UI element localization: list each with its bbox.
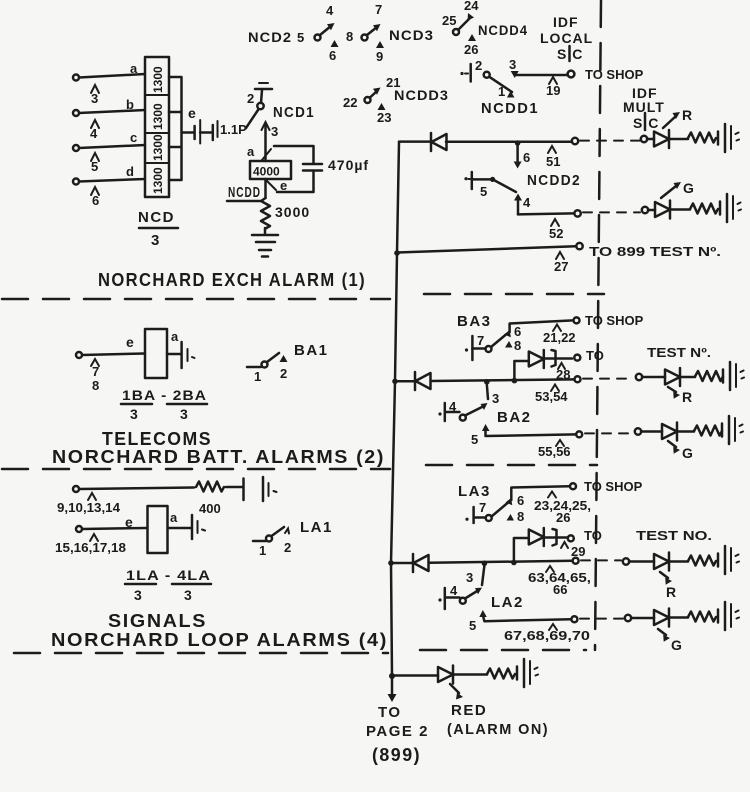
relay NCD coil block — [145, 57, 169, 197]
svg-text:TO SHOP: TO SHOP — [585, 313, 644, 328]
pin arrow 63-66 — [546, 566, 554, 572]
svg-text:IDF: IDF — [553, 14, 579, 30]
svg-text:2: 2 — [247, 91, 254, 106]
label 1BA - 2BA fraction — [121, 387, 207, 422]
wire — [669, 560, 688, 563]
svg-text:a: a — [130, 61, 138, 76]
resistor BA G — [694, 426, 722, 436]
svg-text:a: a — [171, 329, 179, 344]
wire c — [79, 145, 145, 148]
diode red alarm — [438, 666, 453, 684]
svg-text:e: e — [125, 514, 134, 530]
contact BA2 front bar — [438, 403, 459, 421]
pin arrow 7 8 — [91, 359, 99, 366]
wire coil to resistor — [264, 179, 267, 198]
svg-text:a: a — [247, 144, 255, 159]
relay NCD1 coil 4000 — [250, 149, 291, 179]
wire row 67-70 — [483, 615, 571, 621]
svg-text:RED: RED — [451, 702, 487, 719]
contact NCDD1 front bar — [460, 64, 470, 82]
terminal 29 — [568, 535, 574, 541]
pin arrow 5 — [482, 424, 490, 431]
wire — [631, 617, 654, 620]
svg-text:G: G — [683, 180, 695, 196]
wire to resistor 400 — [79, 488, 194, 490]
diode G lamp LA — [654, 609, 669, 627]
armature wire 3 with up arrow — [262, 122, 270, 161]
wire — [642, 376, 665, 379]
terminal row 53,54 — [575, 376, 581, 382]
svg-text:53,54: 53,54 — [535, 389, 568, 404]
dashed tie line row 63-66 — [581, 559, 621, 561]
battery row 52 — [720, 194, 741, 222]
terminal row 53,54 right — [636, 374, 642, 380]
svg-text:NORCHARD BATT. ALARMS (2): NORCHARD BATT. ALARMS (2) — [52, 447, 385, 467]
dashed tie line row 52 — [583, 211, 640, 213]
wire pivot drop 3 — [487, 384, 488, 399]
svg-text:TO SHOP: TO SHOP — [585, 67, 644, 82]
svg-text:1300: 1300 — [151, 134, 165, 161]
svg-text:52: 52 — [549, 226, 563, 241]
svg-text:3: 3 — [151, 232, 161, 249]
terminal row 51 right — [641, 136, 647, 142]
terminal d — [73, 179, 79, 185]
wire pivot drop 3 — [482, 566, 484, 586]
diode G lamp row 52 — [655, 201, 670, 219]
junction node TO 899 line — [394, 250, 400, 256]
svg-text:NCDD1: NCDD1 — [481, 100, 539, 117]
lamp label G with arrow — [668, 441, 694, 461]
battery symbol on a — [192, 515, 205, 539]
wire — [545, 357, 572, 360]
ground above NCD1 contact — [255, 83, 272, 103]
resistor 3000 (vertical zigzag) — [261, 198, 310, 229]
pin arrow 15,16,17,18 — [90, 534, 98, 541]
dashed section divider 1 right — [424, 293, 604, 296]
pin arrow 23,24,25 — [548, 492, 556, 498]
svg-text:LA2: LA2 — [491, 594, 524, 611]
svg-text:TO 899 TEST Nº.: TO 899 TEST Nº. — [589, 244, 721, 259]
svg-text:9: 9 — [376, 49, 383, 64]
label IDF LOCAL S|C — [540, 14, 593, 62]
svg-text:NORCHARD LOOP ALARMS (4): NORCHARD LOOP ALARMS (4) — [51, 630, 388, 650]
pin arrow 19 — [549, 77, 557, 84]
svg-text:1BA - 2BA: 1BA - 2BA — [122, 387, 207, 403]
resistor row 51 — [688, 133, 716, 143]
terminal 7/8 — [76, 352, 82, 358]
svg-text:5: 5 — [91, 159, 98, 174]
pin arrow 23 — [378, 103, 386, 110]
battery symbol on a — [182, 342, 195, 368]
svg-text:NCD1: NCD1 — [273, 104, 315, 121]
contact LA3 blade arrowhead — [506, 498, 513, 505]
terminal row 55,56 right — [635, 428, 641, 434]
svg-text:3: 3 — [184, 587, 193, 603]
wire — [641, 430, 662, 433]
ground below 3000 — [252, 235, 278, 257]
contact LA3 blade — [492, 503, 508, 517]
svg-text:3: 3 — [130, 406, 139, 422]
wire — [677, 430, 694, 433]
wire bar to pivot — [472, 178, 493, 181]
svg-text:67,68,69,70: 67,68,69,70 — [504, 628, 590, 643]
wire a — [79, 74, 145, 78]
capacitor C 470uf — [303, 164, 322, 171]
svg-text:G: G — [671, 637, 683, 653]
svg-text:1300: 1300 — [151, 167, 165, 194]
lamp label G with arrow — [661, 180, 695, 198]
contact NCDD4 pivot — [453, 29, 459, 35]
label 1LA - 4LA fraction — [125, 567, 211, 603]
resistor LA R — [688, 556, 716, 566]
contact NCD1 pivot — [257, 103, 263, 109]
battery red alarm — [517, 659, 538, 687]
contact NCDD2 front bar — [464, 172, 471, 189]
svg-text:4: 4 — [90, 126, 98, 141]
wire to relay 1BA-2BA — [82, 354, 145, 356]
pin arrow 6 — [331, 40, 339, 47]
resistor red alarm — [487, 669, 515, 679]
svg-text:(899): (899) — [372, 745, 421, 765]
svg-text:BA2: BA2 — [497, 409, 532, 426]
svg-text:21,22: 21,22 — [543, 330, 576, 345]
terminal BA3 to shop — [574, 317, 580, 323]
battery LA G — [718, 602, 739, 630]
contact BA3 front bar — [465, 336, 486, 360]
contact LA2 blade arrowhead — [475, 588, 482, 595]
pin arrow 51 — [548, 146, 556, 153]
dashed section divider 1 left — [2, 298, 390, 301]
wire — [226, 486, 242, 489]
svg-text:26: 26 — [556, 510, 570, 525]
contact NCDD2 blade — [493, 179, 516, 192]
svg-text:5: 5 — [480, 184, 487, 199]
wire d — [79, 179, 145, 182]
wire red alarm row — [392, 674, 438, 677]
svg-text:23: 23 — [377, 110, 391, 125]
contact NCDD2 pivot — [490, 177, 495, 182]
svg-text:29: 29 — [571, 544, 585, 559]
wire alarm row 51 — [399, 140, 572, 143]
contact NCD3 pivot — [362, 35, 368, 41]
contact NCDD3 pivot — [365, 97, 371, 103]
svg-text:3: 3 — [134, 587, 143, 603]
terminal row 52 left — [574, 210, 580, 216]
contact BA2 blade — [465, 407, 483, 416]
contact BA1 — [247, 353, 288, 384]
dashed section divider 3 right — [420, 649, 586, 652]
wire BA main row 53,54 — [395, 379, 574, 381]
svg-text:TEST NO.: TEST NO. — [636, 528, 712, 543]
terminal a — [73, 75, 79, 81]
diode on BA main row — [415, 372, 431, 390]
terminal c — [73, 145, 79, 151]
wire — [545, 536, 567, 539]
dashed tie line row 51 — [580, 140, 640, 142]
pin arrow 8 — [507, 514, 515, 521]
wire — [200, 131, 213, 134]
terminal 28 — [574, 355, 580, 361]
terminal row 52 right — [642, 207, 648, 213]
terminal row 67-70 — [571, 616, 577, 622]
svg-text:3: 3 — [271, 124, 278, 139]
half battery mark on 29 branch — [553, 529, 557, 546]
contact LA2 blade — [465, 591, 478, 599]
contact NCD3 blade with arrowhead — [367, 24, 381, 35]
svg-text:8: 8 — [517, 509, 524, 524]
svg-text:4: 4 — [326, 3, 334, 18]
svg-text:3: 3 — [466, 570, 473, 585]
pin arrow 27 — [556, 252, 564, 259]
svg-text:1: 1 — [254, 369, 261, 384]
svg-text:d: d — [126, 164, 134, 179]
svg-text:3: 3 — [180, 406, 189, 422]
wire e from bracket — [182, 131, 195, 134]
pin arrow 21,22 — [553, 325, 561, 332]
contact BA2 blade arrowhead — [481, 403, 488, 410]
pin arrow 67-70 — [549, 624, 557, 630]
pin arrow 29 — [561, 542, 568, 548]
wire diode branch 28 — [514, 361, 528, 380]
wire — [669, 616, 688, 619]
wire — [670, 208, 690, 211]
diode on row 51 — [431, 133, 447, 151]
svg-text:PAGE 2: PAGE 2 — [366, 723, 429, 740]
wire — [453, 673, 487, 676]
svg-text:TO: TO — [378, 704, 402, 721]
dashed tie line row 67-70 — [580, 618, 623, 620]
svg-text:(ALARM ON): (ALARM ON) — [447, 721, 549, 738]
pin arrow 4 — [91, 120, 99, 128]
bracket wire joining block outputs — [169, 77, 182, 180]
svg-text:e: e — [280, 178, 287, 193]
contact LA3 front bar — [465, 507, 485, 523]
battery cell 1 on e wire — [195, 120, 201, 144]
svg-text:a: a — [170, 510, 178, 525]
diode on LA main row — [413, 554, 429, 572]
svg-text:24: 24 — [464, 0, 479, 13]
pin arrow 55,56 — [556, 440, 564, 446]
svg-text:NCD3: NCD3 — [389, 27, 434, 43]
svg-text:SIGNALS: SIGNALS — [108, 611, 207, 631]
junction node BA pivot drop — [484, 379, 490, 385]
svg-text:b: b — [126, 97, 134, 112]
wire relay to battery — [167, 353, 181, 356]
battery 400 line — [244, 477, 277, 501]
label TO 899 TEST No. — [589, 244, 721, 259]
pin arrow 1 — [507, 91, 515, 98]
svg-text:LOCAL: LOCAL — [540, 30, 593, 46]
svg-text:LA3: LA3 — [458, 483, 491, 500]
pin arrow 9 — [376, 41, 384, 48]
svg-text:5: 5 — [297, 30, 304, 45]
svg-text:5: 5 — [469, 618, 476, 633]
junction node LA diode branch — [511, 560, 517, 566]
svg-text:TO SHOP: TO SHOP — [584, 479, 643, 494]
svg-text:5: 5 — [471, 432, 478, 447]
junction node row 51 — [515, 140, 521, 146]
contact BA2 pivot — [460, 415, 466, 421]
pin arrow 53,54 — [551, 385, 559, 392]
svg-text:6: 6 — [329, 48, 336, 63]
pin arrow 4 with wire to row 52 — [514, 194, 522, 215]
contact BA3 blade — [491, 335, 506, 348]
diode on 29 branch — [529, 528, 544, 546]
armature tick e — [266, 180, 276, 190]
svg-text:NCDD2: NCDD2 — [527, 172, 581, 189]
svg-text:e: e — [126, 334, 135, 350]
terminal LA3 to shop — [570, 483, 576, 489]
svg-text:66: 66 — [553, 582, 567, 597]
resistor 400 — [196, 482, 224, 492]
wire LA3 to shop — [511, 486, 569, 500]
pin arrow 8 — [505, 341, 513, 348]
pin arrow 5 — [479, 610, 487, 617]
wire capacitor loop top — [274, 146, 314, 163]
svg-text:BA1: BA1 — [294, 342, 329, 359]
wire LA main row 63-66 — [391, 561, 572, 563]
diode R lamp LA — [654, 553, 669, 571]
svg-text:400: 400 — [199, 501, 221, 516]
svg-text:470µf: 470µf — [328, 157, 369, 173]
arrow to red label — [450, 684, 463, 700]
dashed tie line row 53,54 — [583, 378, 634, 380]
svg-text:2: 2 — [475, 58, 482, 73]
label NCDD underlined — [227, 184, 262, 201]
pin numbers 7 8 — [92, 364, 99, 393]
svg-text:1300: 1300 — [151, 66, 165, 93]
diode R lamp row 51 — [654, 130, 669, 148]
pin arrow 6 — [91, 187, 99, 195]
contact NCDD3 blade with arrowhead — [370, 88, 381, 98]
lamp label R with arrow — [660, 572, 677, 600]
pin arrow 5 — [91, 153, 99, 161]
svg-text:NCDD: NCDD — [228, 184, 261, 201]
wire relay to battery — [168, 527, 192, 530]
svg-text:R: R — [682, 389, 693, 405]
pin arrow 28 — [558, 363, 565, 369]
terminal row 63-66 — [573, 558, 579, 564]
svg-text:NCDD3: NCDD3 — [394, 87, 449, 103]
battery row 51 — [718, 124, 739, 152]
svg-text:3000: 3000 — [275, 204, 310, 220]
svg-text:7: 7 — [477, 333, 484, 348]
svg-text:TELECOMS: TELECOMS — [102, 429, 212, 449]
svg-text:1: 1 — [498, 84, 505, 99]
diode G lamp BA — [662, 423, 677, 441]
wire — [648, 209, 655, 212]
junction node LA pivot drop — [482, 561, 488, 567]
svg-text:BA3: BA3 — [457, 313, 492, 330]
IDF frame boundary dashed vertical line — [595, 0, 601, 650]
svg-text:3: 3 — [509, 57, 516, 72]
svg-text:TO: TO — [586, 348, 604, 363]
wire BA3 to shop — [510, 320, 573, 332]
wire diode branch 29 — [514, 538, 528, 562]
terminal b — [73, 110, 79, 116]
half battery mark on 28 branch — [552, 350, 556, 367]
wire — [647, 138, 654, 141]
pin arrow 26 — [468, 34, 476, 41]
pin arrow 3 — [91, 85, 99, 93]
pin arrow 52 — [551, 219, 559, 226]
terminal row 55,56 — [576, 431, 582, 437]
junction node BA bus — [392, 379, 398, 385]
svg-text:7: 7 — [92, 364, 99, 379]
svg-text:4: 4 — [523, 195, 531, 210]
svg-text:1300: 1300 — [151, 103, 165, 130]
svg-text:2: 2 — [280, 366, 287, 381]
armature drop wire with down arrow (pin 6) — [514, 145, 522, 169]
svg-text:4000: 4000 — [253, 165, 280, 179]
wire b — [79, 110, 145, 113]
svg-text:c: c — [130, 130, 137, 145]
terminal 9,10,13,14 — [73, 486, 79, 492]
battery BA R — [723, 362, 744, 390]
battery cell 2 on e wire — [213, 121, 218, 140]
wire contact 3 to shop terminal — [511, 71, 567, 78]
svg-text:26: 26 — [464, 42, 478, 57]
dashed section divider 3 left — [14, 652, 388, 655]
svg-text:51: 51 — [546, 154, 560, 169]
wire central vertical bus — [391, 142, 399, 676]
contact NCDD1 blade — [489, 77, 512, 92]
contact LA3 pivot — [486, 515, 492, 521]
svg-text:25: 25 — [442, 13, 456, 28]
wire — [669, 138, 688, 141]
svg-text:1: 1 — [259, 543, 266, 558]
svg-text:1.1P: 1.1P — [220, 122, 247, 137]
pin arrow 9,10,13,14 — [88, 493, 96, 500]
svg-text:22: 22 — [343, 95, 357, 110]
terminal row 67-70 right — [625, 615, 631, 621]
svg-text:4: 4 — [450, 583, 458, 598]
relay coil 1BA-2BA — [145, 329, 167, 378]
svg-text:6: 6 — [92, 193, 99, 208]
dashed section divider 2 right — [426, 464, 597, 467]
svg-text:LA1: LA1 — [300, 519, 333, 536]
wire capacitor loop bottom — [277, 171, 314, 192]
battery BA G — [722, 416, 743, 444]
wire to relay 1LA-4LA — [82, 528, 147, 529]
svg-text:8: 8 — [514, 338, 521, 353]
svg-text:15,16,17,18: 15,16,17,18 — [55, 540, 126, 555]
contact BA3 blade arrowhead — [504, 330, 511, 337]
svg-text:NCD2: NCD2 — [248, 29, 292, 45]
terminal 15,16,17,18 — [76, 526, 82, 532]
relay coil 1LA-4LA — [148, 506, 168, 553]
svg-text:R: R — [666, 584, 677, 600]
terminal 899 — [576, 243, 582, 249]
lamp label G with arrow — [658, 629, 683, 653]
label IDF MULT S|C — [623, 85, 665, 131]
svg-text:2: 2 — [284, 540, 291, 555]
battery LA R — [718, 546, 739, 574]
arrow to page 2 — [388, 679, 397, 702]
svg-text:4: 4 — [449, 399, 457, 414]
resistor LA G — [688, 612, 716, 622]
svg-text:R: R — [682, 107, 693, 123]
lamp label R with arrow — [668, 387, 693, 405]
dashed section divider 2 left — [2, 468, 390, 471]
contact NCD2 blade with arrowhead — [320, 23, 335, 35]
terminal to shop — [568, 71, 575, 78]
junction node LA bus — [388, 560, 394, 566]
contact NCDD1 pivot — [484, 72, 490, 78]
contact BA3 pivot — [486, 346, 492, 352]
contact NCD2 pivot — [315, 35, 321, 41]
dashed tie line row 55,56 — [585, 432, 633, 434]
